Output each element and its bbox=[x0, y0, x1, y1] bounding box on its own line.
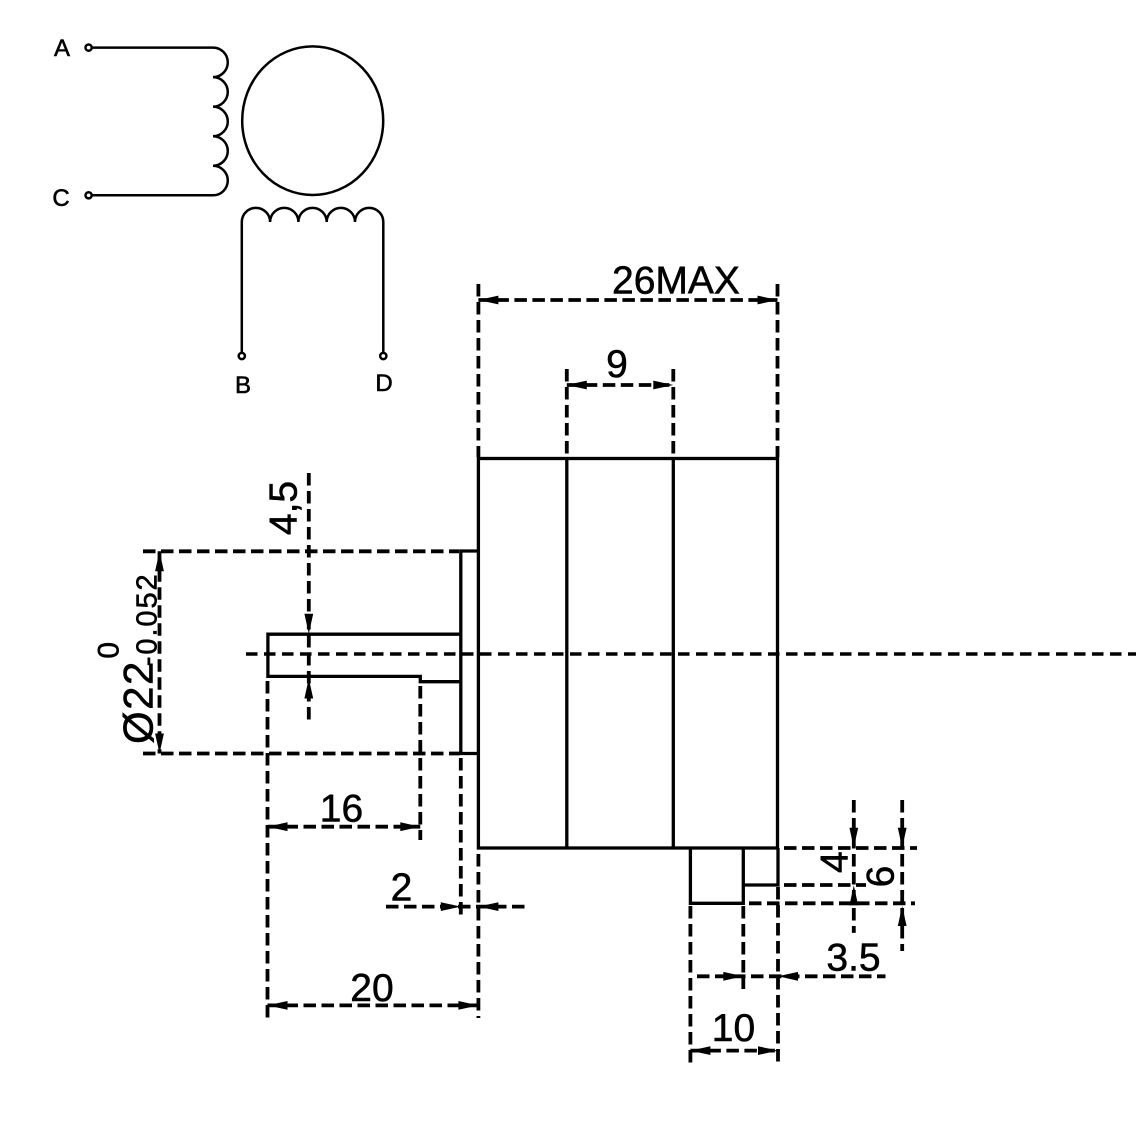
arrow 20 left bbox=[268, 1001, 288, 1010]
arrow 9 left bbox=[567, 381, 587, 390]
svg-text:4,5: 4,5 bbox=[263, 481, 306, 535]
arrow 4,5 up bbox=[304, 679, 313, 699]
arrow 10 left bbox=[690, 1046, 710, 1055]
arrow 16 right bbox=[400, 822, 420, 831]
motor rotor circle bbox=[242, 46, 383, 195]
terminal block notch edge bbox=[743, 848, 778, 885]
extension line 2 left bbox=[459, 758, 463, 919]
arrow 3.5 left-pointing bbox=[778, 972, 798, 981]
mounting flange plate bbox=[461, 551, 479, 754]
svg-text:26MAX: 26MAX bbox=[612, 260, 740, 303]
extension line 9 right bbox=[671, 369, 675, 456]
winding L1 (phase A-C) bbox=[213, 48, 228, 196]
arrow 20 right bbox=[458, 1001, 478, 1010]
terminal block outline bbox=[690, 848, 743, 903]
dimension line 16 bbox=[268, 825, 421, 829]
terminal A bbox=[86, 45, 92, 51]
svg-text:6: 6 bbox=[860, 866, 903, 888]
dimension line 9 bbox=[567, 383, 674, 387]
dimension line 10 bbox=[690, 1049, 778, 1053]
arrow diameter bottom bbox=[155, 734, 164, 754]
svg-text:16: 16 bbox=[320, 788, 363, 831]
arrow 3.5 right-pointing bbox=[723, 972, 743, 981]
arrow 26MAX right bbox=[758, 296, 778, 305]
svg-text:2: 2 bbox=[391, 867, 413, 910]
extension line diameter bottom bbox=[143, 752, 460, 756]
arrow 4 down bbox=[849, 828, 858, 848]
svg-text:3.5: 3.5 bbox=[826, 937, 880, 980]
extension line 26MAX left bbox=[476, 284, 480, 457]
arrow 9 right bbox=[653, 381, 673, 390]
dimension line 26MAX bbox=[478, 298, 777, 302]
svg-text:C: C bbox=[52, 185, 69, 212]
extension line 16-20 left bbox=[266, 681, 270, 1018]
svg-text:B: B bbox=[235, 372, 251, 399]
extension line diameter top bbox=[143, 549, 459, 553]
dimension line 20 bbox=[268, 1004, 479, 1008]
arrow 4,5 down bbox=[304, 614, 313, 634]
dimension line 4,5 bbox=[307, 473, 311, 723]
svg-text:D: D bbox=[375, 370, 392, 397]
wire A bbox=[93, 46, 213, 49]
arrow 16 left bbox=[268, 822, 288, 831]
arrow 2 left-pointing bbox=[478, 902, 498, 911]
arrow 10 right bbox=[758, 1046, 778, 1055]
winding L2 (phase B-D) bbox=[242, 208, 383, 222]
svg-text:A: A bbox=[54, 35, 70, 62]
terminal C bbox=[86, 192, 92, 198]
arrow diameter top bbox=[155, 551, 164, 571]
body section line 2 bbox=[672, 459, 675, 849]
extension line 20 right bbox=[476, 854, 480, 1018]
svg-text:9: 9 bbox=[606, 343, 628, 386]
arrow 6 down bbox=[898, 828, 907, 848]
wire D bbox=[382, 222, 385, 353]
dimension line diameter 22 bbox=[158, 551, 162, 753]
svg-text:20: 20 bbox=[350, 967, 393, 1010]
wire B bbox=[241, 222, 244, 353]
extension line 16 right bbox=[418, 686, 422, 840]
extension line 10-3.5 right bbox=[776, 887, 780, 1064]
extension line 26MAX right bbox=[776, 284, 780, 457]
extension line 9 left bbox=[565, 369, 569, 456]
extension line body bottom right bbox=[784, 846, 917, 850]
extension line 3.5 left bbox=[741, 906, 745, 989]
arrow 4 up bbox=[849, 885, 858, 905]
centerline bbox=[246, 652, 1136, 656]
arrow 26MAX left bbox=[478, 296, 498, 305]
terminal D bbox=[380, 353, 386, 359]
arrow 6 up bbox=[898, 906, 907, 926]
dimension line 6 bbox=[900, 800, 904, 951]
dimension line 4 bbox=[852, 800, 856, 933]
motor body outline bbox=[478, 459, 777, 849]
body section line 1 bbox=[565, 459, 568, 849]
extension line 10 left bbox=[689, 906, 693, 1064]
svg-text:10: 10 bbox=[712, 1007, 755, 1050]
terminal B bbox=[239, 353, 245, 359]
extension line block bottom right bbox=[749, 901, 915, 905]
dimension line 2 bbox=[386, 905, 525, 909]
dimension line 3.5 bbox=[697, 974, 886, 978]
svg-text:4: 4 bbox=[814, 851, 857, 873]
wire C bbox=[93, 194, 213, 197]
extension line notch bottom right bbox=[784, 883, 866, 887]
shaft outline with flat bbox=[268, 634, 461, 682]
arrow 2 right-pointing bbox=[441, 902, 461, 911]
